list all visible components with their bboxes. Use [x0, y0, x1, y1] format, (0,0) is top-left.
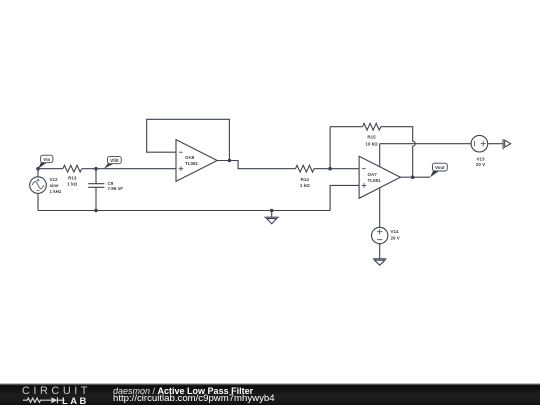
svg-text:1 kΩ: 1 kΩ — [67, 182, 77, 187]
label V14 value — [391, 229, 400, 240]
node flag Vin — [38, 155, 53, 169]
svg-text:R13: R13 — [68, 175, 77, 180]
junction: OA7 output node — [411, 175, 415, 179]
svg-text:R15: R15 — [367, 135, 376, 140]
svg-text:1 kHz: 1 kHz — [50, 189, 63, 194]
wire: R15 right lead and vertical with hop over supply wire — [381, 127, 415, 178]
wire: ground rail (bottom) — [38, 209, 330, 211]
ground symbol at rail (below OA8) — [264, 211, 279, 224]
CircuitLab logo schematic squiggle (resistor + diode) — [23, 396, 65, 405]
svg-text:OA7: OA7 — [368, 172, 378, 177]
label V13 value — [476, 156, 485, 167]
svg-text:V12: V12 — [50, 177, 59, 182]
svg-text:10 kΩ: 10 kΩ — [365, 141, 378, 146]
junction: C9 bottom on ground rail — [94, 209, 98, 213]
svg-text:20 V: 20 V — [391, 235, 400, 240]
node flag Vout — [430, 163, 447, 177]
wire: OA8 feedback loop (output to inverting input) — [147, 119, 230, 160]
wire: Vin node to R13 left lead — [38, 168, 63, 170]
wire: OA7 V- pin down to V14 — [379, 188, 381, 228]
ground symbol right (rotated, after V13) — [503, 139, 511, 149]
junction: OA8 output feedback tap — [228, 159, 232, 163]
wire: R15 left vertical riser — [329, 127, 331, 169]
svg-text:R14: R14 — [301, 177, 310, 182]
svg-text:V13: V13 — [476, 156, 485, 161]
svg-text:1 kΩ: 1 kΩ — [300, 183, 310, 188]
CircuitLab logo wordmark — [22, 387, 91, 395]
svg-text:Vfilt: Vfilt — [110, 158, 119, 163]
node flag Vfilt — [104, 156, 121, 168]
wire: junction to Vout flag — [413, 176, 430, 178]
wire: Vfilt node to OA8 noninverting input — [96, 168, 176, 170]
capacitor C9 — [88, 169, 104, 211]
label R14 value — [300, 177, 310, 188]
label C9 value — [108, 181, 124, 191]
svg-text:V14: V14 — [391, 229, 400, 234]
footer title text — [113, 386, 253, 396]
svg-text:20 V: 20 V — [476, 162, 485, 167]
resistor R15 body — [363, 123, 381, 130]
wire: R14 to OA7 inverting junction — [314, 168, 330, 170]
wire: R13 to Vfilt junction — [82, 168, 96, 170]
wire: rail up to OA7 noninverting input — [330, 185, 359, 210]
svg-text:Vout: Vout — [435, 165, 445, 170]
wire: OA7 output to R15/Vout junction — [400, 176, 412, 178]
svg-text:Vin: Vin — [43, 157, 50, 162]
wire: OA7 V+ pin up to supply wire — [379, 144, 381, 167]
footer bar — [0, 383, 540, 405]
ground symbol below V14 — [373, 259, 387, 265]
label R13 value — [67, 175, 77, 186]
junction: ground tap on rail — [270, 209, 274, 213]
wire: junction to OA7 inverting input — [330, 168, 359, 170]
svg-text:OA8: OA8 — [185, 155, 195, 160]
resistor R13 body — [63, 165, 82, 172]
svg-text:TL081: TL081 — [368, 178, 382, 183]
op-amp OA8 (TL081 voltage follower) — [176, 140, 217, 182]
svg-text:TL081: TL081 — [185, 161, 199, 166]
wire: supply wire to V13 — [380, 143, 471, 145]
op-amp OA7 (TL081) — [359, 156, 400, 198]
label V12 value — [50, 177, 63, 194]
svg-text:C9: C9 — [108, 181, 114, 186]
wire: R15 left lead — [330, 126, 362, 128]
voltage source V14 (20 V) — [372, 227, 388, 258]
svg-text:7.96 nF: 7.96 nF — [108, 186, 124, 191]
resistor R14 body — [296, 165, 315, 172]
voltage source V13 (20 V, horizontal) — [471, 135, 503, 152]
voltage source V12 (sine) — [30, 169, 47, 211]
junction: R14/R15/OA7- node — [328, 167, 332, 171]
junction: Vin node — [36, 167, 40, 171]
label R15 value — [365, 135, 378, 147]
footer url text — [113, 394, 275, 404]
junction: Vfilt node (R13/C9) — [94, 167, 98, 171]
svg-text:sine: sine — [50, 183, 60, 188]
wire: OA8 output to R14 — [217, 161, 295, 169]
